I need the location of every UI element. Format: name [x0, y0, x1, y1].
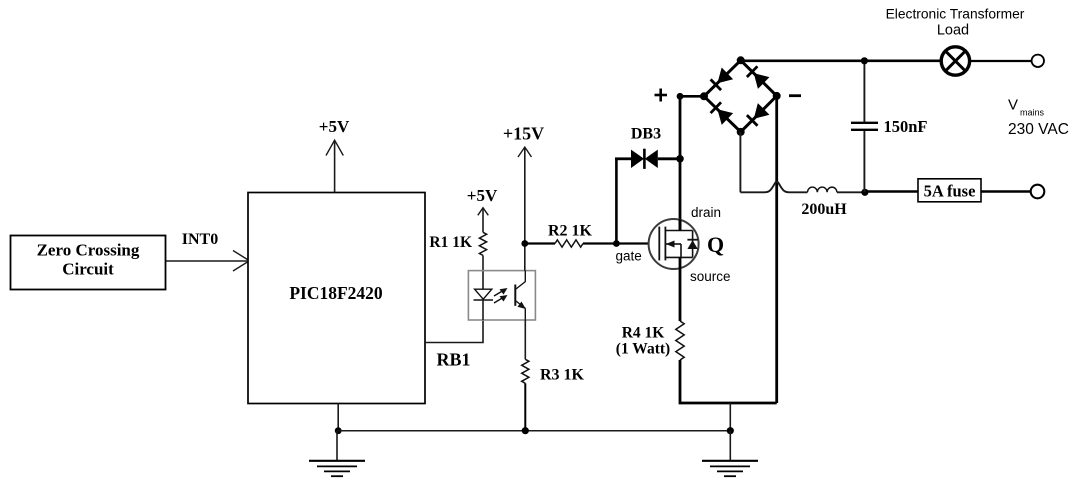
fuse F1 box 5A fuse: [918, 179, 981, 202]
wire: fuse to right terminal: [981, 190, 1031, 193]
wire: R4 down and bottom of source loop: [680, 360, 777, 403]
wire: R2 to gate node: [583, 242, 616, 244]
junction: + node: [677, 93, 684, 100]
optocoupler LED: [474, 289, 494, 320]
resistor R4: [676, 321, 684, 360]
wire: bridge top node to lamp: [741, 59, 941, 62]
optocoupler phototransistor: [515, 271, 526, 320]
wire: R1 to optocoupler LED anode: [482, 255, 484, 290]
junction: cap top node: [861, 57, 868, 64]
svg-text:5A fuse: 5A fuse: [924, 182, 976, 201]
bridge diode D1 (top-left): [710, 68, 733, 91]
resistor R1: [479, 232, 486, 255]
wire: junction to R2: [525, 242, 555, 244]
junction: gate node: [613, 240, 620, 247]
junction: right ground node: [727, 427, 734, 434]
svg-text:RB1: RB1: [437, 350, 471, 370]
svg-text:(1 Watt): (1 Watt): [616, 341, 670, 358]
node: bridge right: [773, 92, 781, 100]
svg-text:230 VAC: 230 VAC: [1008, 121, 1069, 138]
wire: + node to bridge left node: [680, 95, 704, 98]
svg-text:V: V: [1008, 97, 1018, 114]
svg-text:drain: drain: [691, 205, 721, 220]
svg-text:R3 1K: R3 1K: [540, 367, 585, 384]
wire: loop bottom to ground bus: [729, 403, 731, 431]
junction: DB3 / drain node: [676, 155, 684, 163]
node: bridge left: [700, 92, 708, 100]
svg-text:+15V: +15V: [503, 124, 544, 144]
ground (right): [702, 431, 758, 477]
svg-text:150nF: 150nF: [884, 117, 928, 136]
terminal: mains bottom: [1031, 185, 1045, 199]
ground (left): [309, 431, 365, 477]
svg-text:gate: gate: [616, 249, 642, 264]
node: bridge top: [737, 56, 745, 64]
svg-text:Zero Crossing: Zero Crossing: [37, 241, 140, 260]
svg-text:Load: Load: [937, 23, 969, 39]
svg-text:+5V: +5V: [319, 117, 350, 136]
wire: bridge right node down to loop bottom: [775, 96, 778, 403]
IC U1 PIC18F2420: [248, 193, 425, 404]
optocoupler light arrows: [494, 288, 508, 303]
inductor L1 200uH: [808, 187, 837, 192]
wire: phototransistor emitter to R3: [524, 320, 526, 360]
junction: +15V / R2 node: [521, 240, 528, 247]
wire: gate node to MOSFET gate: [616, 242, 649, 244]
wire: bridge bottom node down: [739, 132, 741, 192]
wire: R3 to ground bus: [524, 383, 526, 430]
junction: PIC ground node: [335, 427, 342, 434]
resistor R3: [522, 359, 529, 383]
MOSFET Q: [649, 219, 699, 269]
svg-text:Circuit: Circuit: [62, 260, 114, 279]
svg-text:200uH: 200uH: [801, 201, 847, 218]
bridge diode D3 (top-right): [746, 66, 769, 89]
svg-text:mains: mains: [1020, 108, 1045, 118]
svg-text:PIC18F2420: PIC18F2420: [289, 283, 383, 303]
box: Zero Crossing Circuit: [11, 236, 166, 290]
wire: DB3 left lead: [615, 157, 631, 160]
diac DB3: [631, 149, 658, 169]
wire: PIC RB1 pin to optocoupler LED cathode: [425, 320, 483, 343]
svg-text:INT0: INT0: [182, 231, 218, 248]
terminal: mains top: [1032, 55, 1044, 67]
wire: cap node to fuse: [865, 190, 918, 193]
svg-text:Electronic Transformer: Electronic Transformer: [886, 7, 1025, 22]
wire: bridge + node down to DB3 node: [679, 96, 682, 159]
svg-text:Q: Q: [707, 232, 724, 257]
wire: +5V arrow into PIC top: [326, 140, 343, 192]
optocoupler U2 package: [468, 271, 535, 320]
svg-text:R2 1K: R2 1K: [548, 223, 593, 240]
svg-text:source: source: [690, 269, 731, 284]
svg-text:R1 1K: R1 1K: [429, 234, 472, 251]
svg-text:R4 1K: R4 1K: [622, 325, 665, 342]
bridge diode D4 (bottom-right): [746, 103, 769, 126]
wire: +15V arrow down to gate node: [518, 147, 532, 271]
lamp: Electronic Transformer Load: [941, 47, 969, 75]
wire: bottom node to inductor with hop over right leg: [740, 182, 807, 193]
bridge rectifier edges: [704, 60, 777, 132]
svg-text:+5V: +5V: [467, 186, 498, 205]
wire: DB3 node down to MOSFET drain: [679, 159, 682, 231]
wire: gate node up to DB3: [615, 159, 618, 244]
label Vmains: [1008, 97, 1045, 118]
resistor R2: [555, 240, 583, 247]
wire: INT0 from Zero Crossing Circuit to PIC with arrowhead: [165, 251, 249, 272]
label R4 1K (1 Watt): [616, 325, 670, 358]
wire: PIC bottom to ground bus: [337, 404, 339, 432]
wire: +5V arrow to R1: [478, 208, 489, 233]
capacitor C1 150nF: [851, 61, 878, 193]
svg-text:DB3: DB3: [631, 126, 661, 143]
wire: ground bus: [338, 430, 730, 432]
label + (bridge positive): [655, 89, 668, 102]
wire: lamp to right terminal: [971, 60, 1032, 62]
bridge diode D2 (bottom-left): [710, 102, 733, 125]
wire: inductor to cap node: [837, 191, 865, 193]
junction: cap bottom node: [861, 189, 868, 196]
wire: DB3 right lead to drain line: [658, 157, 680, 160]
wire: MOSFET source to R4: [679, 269, 682, 321]
node: bridge bottom: [737, 128, 745, 136]
label - (bridge negative): [789, 94, 801, 97]
junction: R3 ground node: [522, 427, 529, 434]
